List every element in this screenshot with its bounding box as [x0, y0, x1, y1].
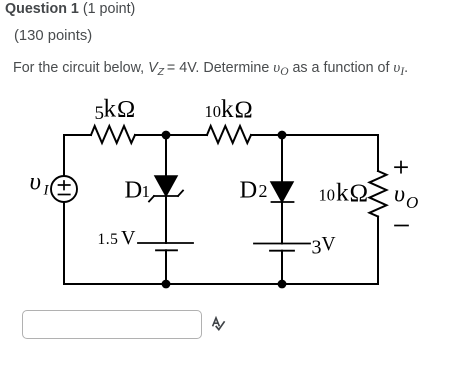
- minus sign vO: [395, 225, 408, 227]
- svg-text:V: V: [322, 234, 336, 255]
- svg-text:10: 10: [205, 102, 222, 121]
- source vI: [51, 176, 77, 202]
- svg-text:2: 2: [259, 181, 268, 201]
- svg-text:υ: υ: [30, 169, 41, 196]
- svg-text:3: 3: [312, 237, 322, 259]
- svg-text:Ω: Ω: [235, 96, 253, 123]
- svg-text:k: k: [221, 96, 234, 123]
- node top D1: [162, 131, 171, 140]
- wire right vertical lower: [377, 217, 379, 285]
- wire between 5k and 10k: [135, 134, 207, 136]
- svg-text:1: 1: [142, 182, 151, 201]
- plus sign vO: [395, 162, 407, 173]
- label 10kOhm right: [319, 178, 369, 207]
- wire D1 branch upper: [165, 135, 167, 176]
- svg-text:I: I: [43, 183, 50, 199]
- svg-text:Ω: Ω: [117, 96, 135, 123]
- wire battery 3V to bottom: [281, 251, 283, 284]
- resistor 10k right (vertical): [370, 171, 387, 217]
- wire bottom: [64, 283, 378, 285]
- wire left vertical lower: [63, 202, 65, 284]
- points line: [14, 28, 92, 45]
- resistor 10k top: [207, 126, 251, 143]
- label vO: [394, 182, 418, 213]
- svg-text:O: O: [406, 193, 418, 212]
- node bottom D2: [278, 280, 287, 289]
- wire left vertical upper: [63, 135, 65, 176]
- label vI: [30, 169, 50, 199]
- svg-text:k: k: [104, 96, 117, 123]
- diode D2: [271, 182, 293, 202]
- wire 10k to right corner: [251, 134, 378, 136]
- zener diode D1: [155, 176, 177, 196]
- battery 3V: [254, 243, 310, 245]
- svg-text:D: D: [240, 177, 258, 204]
- svg-text:10: 10: [319, 186, 336, 205]
- svg-text:Ω: Ω: [350, 180, 369, 207]
- node top D2: [278, 131, 287, 140]
- wire battery 1.5V to bottom: [165, 250, 167, 284]
- node bottom D1: [162, 280, 171, 289]
- label 1.5V: [98, 227, 137, 249]
- question header: [5, 1, 135, 18]
- battery 1.5V: [138, 242, 193, 244]
- problem statement: [13, 59, 408, 77]
- resistor 5k: [91, 126, 135, 143]
- wire top-left segment: [64, 134, 91, 136]
- label 10kOhm top: [205, 96, 253, 123]
- wire D2 branch upper: [281, 135, 283, 182]
- spellcheck icon: [209, 314, 229, 334]
- wire D2 to battery: [281, 202, 283, 244]
- label D1: [125, 177, 151, 204]
- svg-text:υ: υ: [394, 182, 405, 208]
- label D2: [240, 177, 268, 204]
- label 5kOhm: [95, 96, 136, 125]
- svg-text:V: V: [121, 227, 136, 249]
- wire right vertical upper: [377, 135, 379, 171]
- svg-text:D: D: [125, 177, 143, 204]
- svg-text:k: k: [336, 178, 349, 207]
- svg-text:1.5: 1.5: [98, 231, 119, 248]
- label 3V: [312, 234, 336, 259]
- wire D1 to battery: [165, 196, 167, 243]
- answer input box: [22, 310, 202, 339]
